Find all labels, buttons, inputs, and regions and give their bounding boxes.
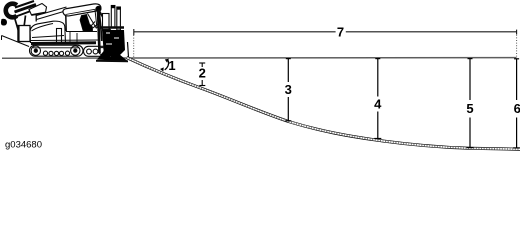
dimension 6 xyxy=(513,59,520,148)
carriage block xyxy=(102,30,125,57)
svg-text:g034680: g034680 xyxy=(5,140,42,151)
svg-text:1: 1 xyxy=(168,58,175,73)
dimension 7 leader dotted left xyxy=(133,35,135,58)
deck line xyxy=(31,39,101,42)
tower sheave xyxy=(96,6,101,11)
window diagonal brace xyxy=(88,14,97,29)
loader beam upper xyxy=(37,7,67,16)
svg-text:4: 4 xyxy=(374,97,382,112)
anchor foot left xyxy=(97,48,112,61)
fuel tank xyxy=(57,29,62,44)
rear track xyxy=(30,45,84,56)
engine hood xyxy=(30,21,66,43)
rod tube lower outline xyxy=(16,9,38,17)
dimension 7 leader dotted right xyxy=(516,35,518,57)
svg-text:2: 2 xyxy=(199,66,206,81)
dimension 2 xyxy=(199,63,205,86)
dimension 7 line xyxy=(134,29,517,35)
rod box slab xyxy=(29,4,47,16)
support frame rectangle xyxy=(18,26,30,42)
cab canopy roof xyxy=(63,4,101,16)
rod guide ring xyxy=(6,4,17,18)
ground line xyxy=(2,57,517,60)
dimension 3 xyxy=(285,59,291,121)
tower mid frame xyxy=(103,14,110,30)
underdeck dark band xyxy=(31,41,96,45)
console levers xyxy=(91,22,96,27)
tower left post xyxy=(98,10,100,53)
loader beam end post xyxy=(35,14,37,22)
svg-text:3: 3 xyxy=(285,82,292,97)
rod tube upper xyxy=(15,1,34,8)
loader beam lower xyxy=(37,11,68,20)
A-frame left leg xyxy=(15,18,19,32)
rod tube mid xyxy=(15,5,37,13)
cab front post xyxy=(99,8,102,41)
seat xyxy=(80,15,93,32)
bore path (drill pipe band) xyxy=(127,58,520,150)
anchor foot right xyxy=(108,50,127,61)
exhaust stack 2 xyxy=(117,7,121,30)
exhaust stack 1 xyxy=(111,6,115,29)
cab rear post xyxy=(65,16,67,32)
ring mount blob xyxy=(1,19,7,26)
dimension 1 angle arc xyxy=(165,60,169,70)
front track segment xyxy=(84,46,109,56)
svg-text:5: 5 xyxy=(466,101,473,116)
svg-text:7: 7 xyxy=(337,24,344,39)
crossbar xyxy=(100,26,124,29)
drill rig machine xyxy=(1,1,129,61)
svg-text:6: 6 xyxy=(514,101,520,116)
dimension 4 xyxy=(374,59,381,139)
dimension 5 xyxy=(467,59,474,148)
front blade edge xyxy=(2,36,30,47)
A-frame right leg xyxy=(24,16,26,32)
stake rod xyxy=(128,42,129,57)
mast diagonal xyxy=(99,10,123,52)
window frame line xyxy=(95,10,97,28)
base plate xyxy=(96,60,128,63)
cab floor lines xyxy=(66,31,97,33)
